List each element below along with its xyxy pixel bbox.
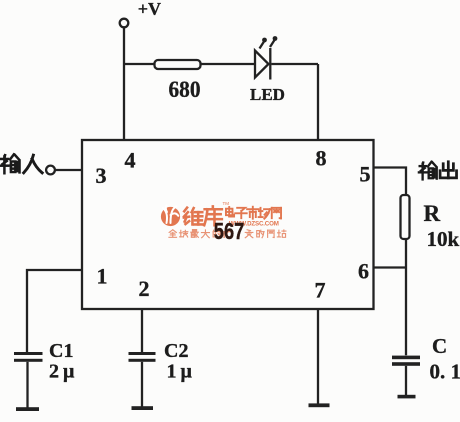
svg-text:5: 5 <box>360 162 371 187</box>
svg-text:2 μ: 2 μ <box>49 361 75 383</box>
svg-text:LED: LED <box>250 85 285 104</box>
svg-text:8: 8 <box>316 146 327 171</box>
svg-text:0. 1: 0. 1 <box>430 360 460 384</box>
svg-text:2: 2 <box>139 276 150 301</box>
svg-text:10k: 10k <box>427 227 460 251</box>
svg-text:C1: C1 <box>49 340 73 362</box>
svg-text:1: 1 <box>97 264 108 289</box>
svg-text:3: 3 <box>96 163 107 188</box>
svg-text:TM: TM <box>223 201 230 206</box>
svg-text:C: C <box>432 334 447 358</box>
svg-text:7: 7 <box>315 278 326 303</box>
svg-text:567: 567 <box>214 218 245 244</box>
svg-text:C2: C2 <box>164 340 188 362</box>
svg-text:R: R <box>424 201 441 226</box>
svg-text:680: 680 <box>169 77 201 103</box>
svg-text:6: 6 <box>358 259 369 284</box>
svg-text:+V: +V <box>138 0 161 19</box>
svg-text:1 μ: 1 μ <box>167 361 193 383</box>
svg-text:4: 4 <box>125 148 136 173</box>
